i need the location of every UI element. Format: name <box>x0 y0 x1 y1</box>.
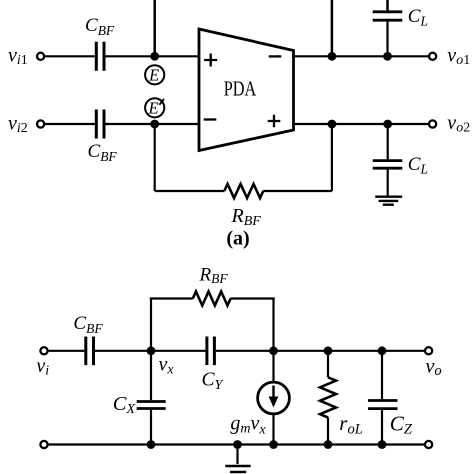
feedback wire right segment <box>263 190 332 192</box>
node CY/current source <box>269 346 278 355</box>
wire vi2 to CBF <box>45 123 95 125</box>
svg-text:E: E <box>147 99 158 118</box>
node E (junction on vi1 line) <box>150 52 159 61</box>
wire CBF to node vx <box>95 350 205 352</box>
input terminal vi1 <box>37 53 44 60</box>
op-amp U1 PDA body <box>199 29 294 151</box>
output terminal vo2 <box>429 120 436 127</box>
current source gm*vx <box>258 351 290 445</box>
wire PDA output to vo1 <box>294 55 429 57</box>
resistor RBF (bottom circuit) <box>193 292 231 306</box>
resistor RBF (top circuit) <box>224 184 263 198</box>
node CZ bottom <box>378 440 387 449</box>
node junction vo2/CL <box>383 120 392 129</box>
input terminal vi <box>40 347 47 354</box>
node junction vo1/CL <box>383 52 392 61</box>
wire node E' down to feedback <box>154 124 156 191</box>
feedback wire left segment <box>155 190 225 192</box>
feedback wire down to node <box>272 299 274 351</box>
svg-text:E: E <box>148 65 159 84</box>
input terminal vi2 <box>37 120 44 127</box>
node label E' (circled) <box>145 98 164 117</box>
node E' (junction on vi2 line) <box>150 120 159 129</box>
wire stub up from node E <box>153 0 156 56</box>
wire CY to current-source node <box>216 350 424 352</box>
node CX bottom <box>147 440 156 449</box>
node roL bottom <box>324 440 333 449</box>
resistor roL <box>320 351 336 445</box>
node ground <box>233 440 242 449</box>
capacitor CL (bottom) <box>373 124 403 196</box>
capacitor CBF (input 2) <box>96 110 104 139</box>
wire CBF to PDA - input <box>106 123 200 125</box>
node CZ top <box>378 346 387 355</box>
wire CBF to PDA + input <box>106 55 200 57</box>
capacitor CBF (b) <box>86 337 94 366</box>
node vx <box>147 346 156 355</box>
pin + (top-left input) <box>204 54 217 67</box>
wire node vo2 down to feedback <box>331 124 333 191</box>
node label E (circled) <box>145 65 164 84</box>
svg-text:(a): (a) <box>226 227 249 249</box>
ground (below CL bottom) <box>375 197 402 205</box>
node junction vo2/feedback <box>328 120 337 129</box>
bottom rail wire <box>48 443 424 445</box>
ground (bottom rail) <box>225 445 250 473</box>
feedback top wire right <box>230 297 274 299</box>
capacitor CL (top, cut off) <box>373 0 403 56</box>
svg-text:PDA: PDA <box>224 77 257 101</box>
wire vi to CBF <box>48 350 84 352</box>
feedback wire up from vx <box>150 299 152 351</box>
node roL top <box>324 346 333 355</box>
capacitor CX <box>137 351 166 445</box>
capacitor CZ <box>368 351 398 445</box>
wire PDA output to vo2 <box>294 123 429 125</box>
wire vi1 to CBF <box>45 55 95 57</box>
capacitor CY <box>207 337 215 366</box>
wire stub up from node on vo1 <box>331 0 334 56</box>
feedback top wire left <box>150 297 193 299</box>
node junction vo1/feedback1 <box>328 52 337 61</box>
capacitor CBF (input 1) <box>96 42 104 71</box>
output terminal vo1 <box>429 53 436 60</box>
pin - (bottom-left input) <box>204 118 217 120</box>
bottom-right terminal <box>425 441 432 448</box>
node current source bottom <box>269 440 278 449</box>
pin - (top-right output) <box>269 55 282 57</box>
pin + (bottom-right output) <box>268 115 281 128</box>
bottom-left terminal <box>40 441 47 448</box>
output terminal vo <box>425 347 432 354</box>
